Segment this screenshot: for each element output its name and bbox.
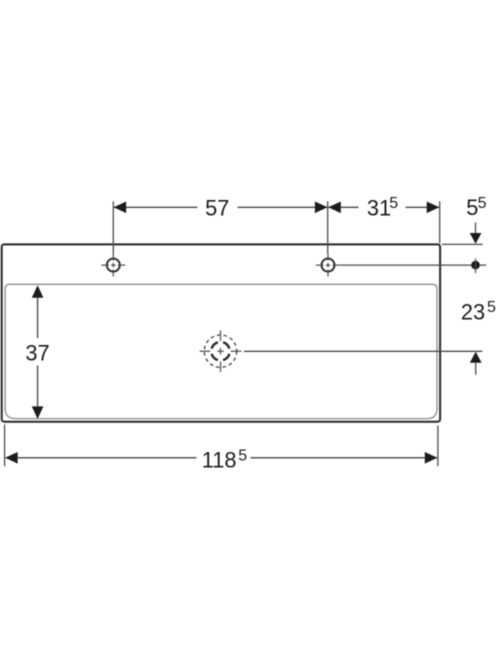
top edge extension line — [442, 243, 483, 245]
washbasin outer outline — [2, 244, 440, 421]
left tap hole — [107, 259, 120, 272]
svg-text:5: 5 — [466, 195, 478, 220]
svg-text:57: 57 — [205, 196, 229, 221]
arrow 37 down — [32, 406, 44, 419]
dimension 5.5 stem and arrow (down) — [475, 223, 477, 235]
dimension 57 line — [114, 206, 198, 208]
right tap hole crosshair — [316, 254, 340, 277]
arrow 118.5 right — [425, 452, 438, 464]
drain hole: cross hairs — [200, 330, 242, 372]
svg-text:37: 37 — [25, 340, 49, 365]
svg-text:5: 5 — [238, 447, 247, 464]
extension line bottom left (x=4.6) — [4, 425, 6, 467]
arrow 57 left — [114, 202, 127, 214]
svg-text:118: 118 — [202, 447, 237, 472]
arrow 118.5 left — [5, 452, 18, 464]
basin inner rim — [5, 284, 437, 418]
tap hole centre line to dot (y=265.1) — [340, 264, 486, 266]
dimension 37 extension handled by basin rim; dim line x=37.6 — [37, 297, 39, 338]
svg-text:5: 5 — [389, 195, 398, 212]
svg-text:5: 5 — [487, 299, 496, 316]
arrow 31.5 left — [328, 202, 341, 214]
dimension 118.5 line — [6, 457, 197, 459]
svg-text:31: 31 — [367, 196, 391, 221]
dimension 23.5 arrow (up) and stem — [470, 352, 482, 363]
extension line left tap hole (x=113.3) — [112, 201, 114, 253]
arrow 37 up — [32, 285, 44, 298]
left tap hole crosshair — [101, 254, 125, 277]
drain hole: inner thick arcs — [212, 342, 230, 360]
arrow 31.5 right — [427, 202, 440, 214]
extension line bottom right (x=437.9) — [437, 426, 439, 467]
svg-text:5: 5 — [478, 195, 487, 212]
dot at 5.5/23.5 junction — [471, 261, 480, 270]
dimension 31.5 line — [328, 206, 358, 208]
svg-text:23: 23 — [461, 300, 485, 325]
right tap hole — [322, 259, 335, 272]
drain centre line (y=351.3) — [244, 350, 482, 352]
extension line right edge (x=439.7) — [439, 201, 441, 243]
drain hole: outer dashed circle — [204, 335, 236, 367]
arrow 57 right — [315, 202, 328, 214]
extension line right tap hole (x=327.7) — [327, 201, 329, 253]
